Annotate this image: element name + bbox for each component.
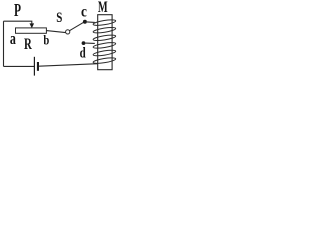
svg-text:c: c (81, 3, 87, 21)
coil turn 4 (93, 42, 116, 50)
svg-text:S: S (56, 10, 62, 26)
resistor R (rheostat box) (16, 28, 47, 33)
svg-text:P: P (14, 0, 21, 20)
battery short thick plate (-) (37, 62, 39, 71)
coil turn 6 (93, 57, 116, 65)
wire: slider lead from left rail to arrow (4, 21, 32, 24)
wire: bottom rail right segment to coil (39, 64, 98, 66)
wire: b terminal to switch (46, 31, 65, 33)
background (0, 0, 117, 76)
wire: bottom rail left segment (4, 65, 35, 67)
switch S lever (70, 22, 84, 30)
svg-text:R: R (24, 36, 32, 53)
coil turn 3 (93, 34, 116, 42)
slider arrow P head (30, 23, 35, 28)
coil turn 1 (93, 19, 116, 27)
svg-text:b: b (43, 34, 49, 49)
coil turn 2 (93, 26, 116, 34)
node d (dot) (82, 41, 86, 45)
wire: left vertical rail (3, 21, 5, 66)
wire: c to coil (87, 21, 95, 24)
switch S pivot circle (66, 30, 70, 34)
node c (dot) (83, 20, 87, 24)
battery long plate (+) (33, 57, 35, 76)
coil turn 5 (93, 49, 116, 57)
svg-text:a: a (10, 29, 16, 48)
svg-text:M: M (98, 0, 108, 16)
electromagnet M core (coil form rectangle) (98, 15, 112, 70)
svg-text:d: d (80, 45, 86, 61)
wire: d to coil (85, 42, 94, 44)
